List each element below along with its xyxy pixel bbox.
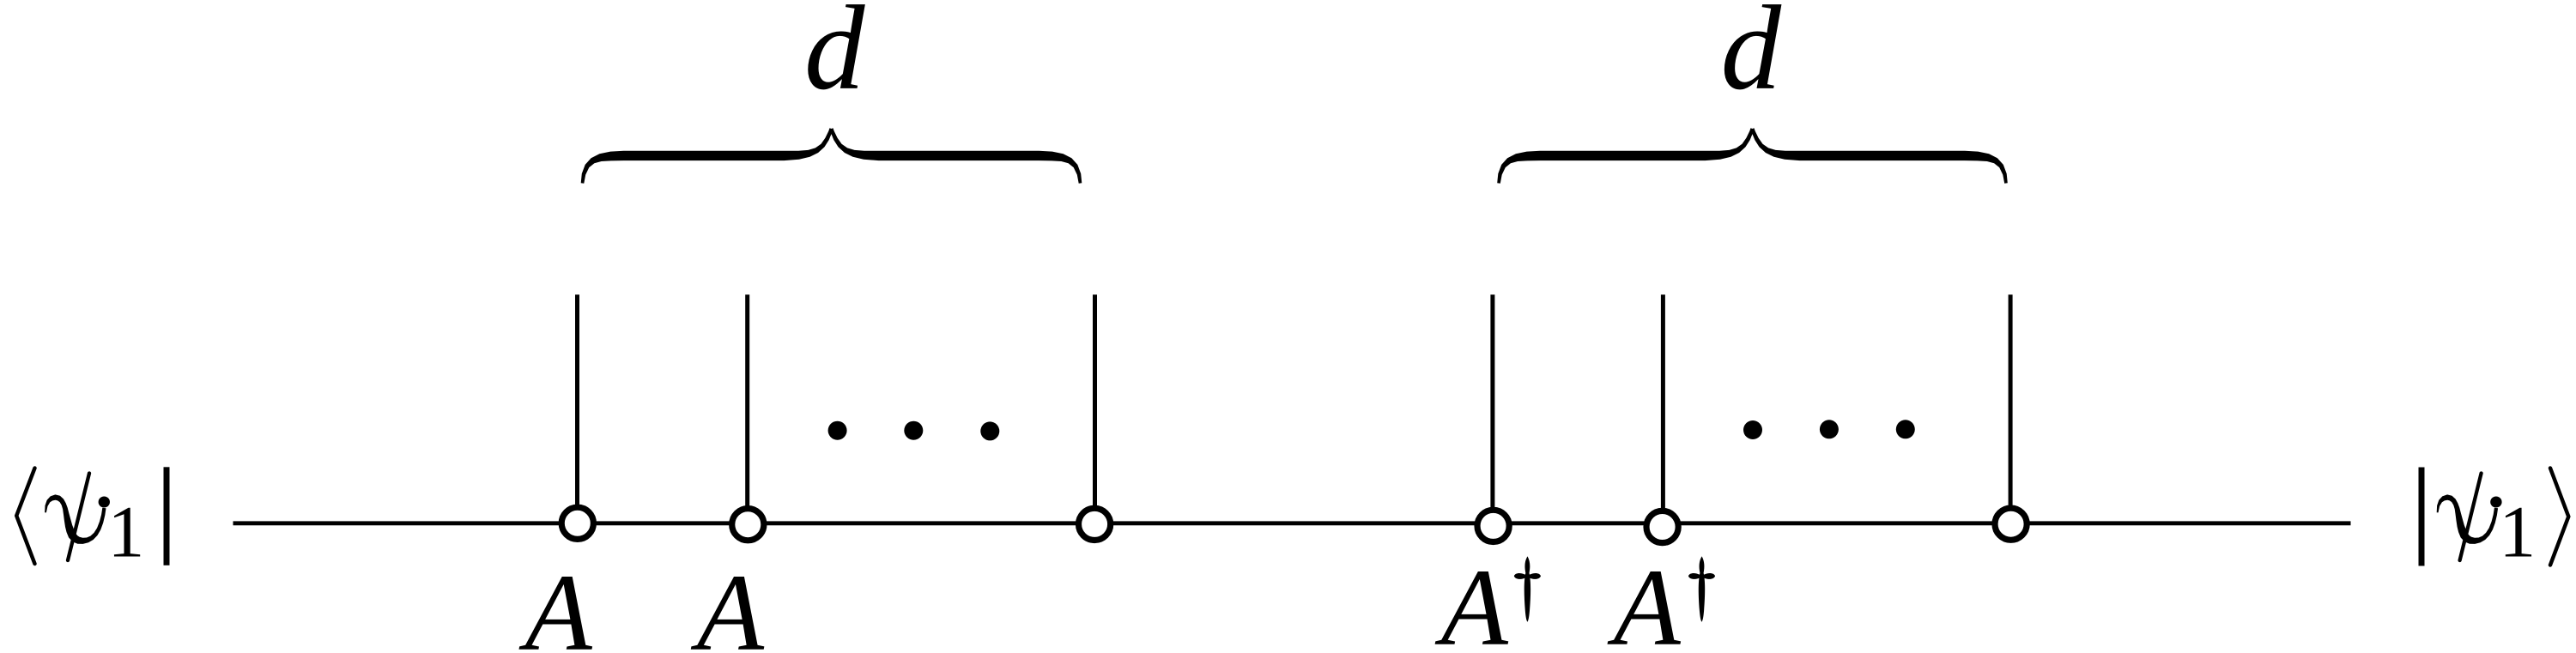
dagger superscript of tensor-5 label [1688, 556, 1715, 622]
svg-text:A: A [1608, 547, 1682, 653]
tensor node A (1) [561, 507, 593, 539]
tensor node A-dagger (5) [1646, 511, 1678, 542]
ellipsis dot 2 (group 1) [904, 421, 923, 440]
ellipsis dot 3 (group 1) [980, 421, 999, 440]
svg-text:1: 1 [107, 491, 144, 573]
ellipsis dot 2 (group 2) [1820, 420, 1839, 438]
svg-text:d: d [1721, 0, 1782, 115]
tensor node A (3) [1079, 508, 1111, 540]
ellipsis dot 3 (group 2) [1896, 420, 1915, 438]
overbrace d (left group) [581, 128, 1082, 184]
leg (physical index) of tensor 5 [1661, 294, 1665, 513]
wire (main horizontal MPS contraction line) [233, 521, 2351, 525]
tensor node A-dagger (4) [1477, 510, 1509, 541]
bra label: psi [45, 474, 110, 561]
svg-text:1: 1 [2499, 491, 2536, 573]
ket label: angle bracket [2550, 469, 2568, 565]
leg (physical index) of tensor 2 [745, 294, 749, 513]
leg (physical index) of tensor 3 [1093, 294, 1097, 513]
ellipsis dot 1 (group 2) [1743, 420, 1762, 439]
bra label: angle bracket of &#10216;psi1| [16, 469, 34, 565]
leg (physical index) of tensor 6 [2009, 294, 2013, 513]
leg (physical index) of tensor 1 [575, 294, 579, 513]
ket label: psi [2437, 474, 2502, 561]
ellipsis dot 1 (group 1) [828, 421, 847, 440]
tensor node A (2) [732, 509, 764, 541]
svg-text:d: d [804, 0, 865, 115]
tensor node A-dagger (6) [1995, 508, 2027, 540]
ket label: vertical bar [2419, 468, 2425, 566]
svg-text:A: A [1435, 547, 1509, 653]
svg-text:A: A [691, 552, 765, 653]
bra label: vertical bar [164, 467, 170, 565]
leg (physical index) of tensor 4 [1490, 294, 1494, 513]
svg-text:A: A [519, 552, 593, 653]
overbrace d (right group) [1497, 128, 2008, 184]
dagger superscript of tensor-4 label [1514, 556, 1541, 622]
